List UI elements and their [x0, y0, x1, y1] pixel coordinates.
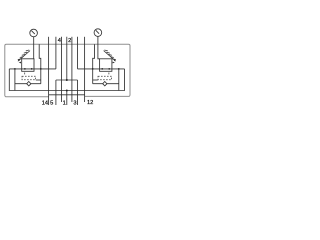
regulator R2 body — [100, 59, 112, 72]
svg-text:1: 1 — [63, 101, 66, 107]
check valve CV1 — [27, 82, 31, 86]
regulator R1 body — [22, 59, 34, 72]
wire riser right with jog — [93, 44, 95, 83]
wire check branch right — [118, 69, 120, 91]
junction dot node80 — [66, 79, 68, 81]
check valve CV2 — [103, 82, 107, 86]
wire relief exit left — [36, 79, 41, 81]
pilot box R2 — [98, 76, 112, 80]
junction dot node90 — [66, 90, 68, 92]
adjust arrow R1 — [19, 51, 30, 61]
svg-text:14: 14 — [42, 101, 48, 107]
relief arrow R1 — [19, 62, 21, 64]
enclosure plate outline — [5, 44, 130, 97]
gauge G1 — [30, 29, 38, 37]
adjust arrow R2 — [104, 51, 115, 61]
wire check branch left — [14, 69, 16, 91]
svg-text:2: 2 — [68, 38, 71, 44]
gauge G2 stem — [98, 36, 100, 58]
wire check line left — [15, 83, 41, 85]
wire supply loop bus — [9, 69, 124, 91]
pilot stub R1 — [24, 73, 26, 75]
wire riser left with jog — [39, 44, 41, 83]
gauge G1 stem — [33, 37, 35, 59]
junction dots right main — [92, 68, 94, 70]
port line 4 — [61, 37, 63, 102]
spring R1 — [18, 50, 29, 60]
spring R2 — [104, 50, 115, 60]
svg-text:3: 3 — [73, 101, 76, 107]
port line 1 — [66, 37, 68, 105]
port line 5 — [55, 37, 57, 105]
wire cross connector y80 — [56, 79, 78, 81]
wire check line right — [93, 83, 119, 85]
wire main line right — [78, 68, 125, 70]
port line 2 — [71, 37, 73, 102]
gauge G2 — [94, 29, 102, 37]
port line 3 — [77, 37, 79, 105]
wire pilot cross connector y94.8 — [49, 94, 85, 96]
pilot box R1 — [22, 76, 36, 80]
relief arrow R2 — [113, 62, 115, 64]
port line 12 — [84, 37, 86, 102]
svg-text:5: 5 — [50, 101, 53, 107]
wire main line left — [9, 68, 56, 70]
svg-text:4: 4 — [58, 38, 61, 44]
pilot stub R2 — [108, 73, 110, 75]
svg-text:12: 12 — [87, 100, 93, 106]
wire relief exit right — [93, 79, 98, 81]
junction dots left main — [14, 68, 16, 70]
port line 14 — [48, 37, 50, 105]
